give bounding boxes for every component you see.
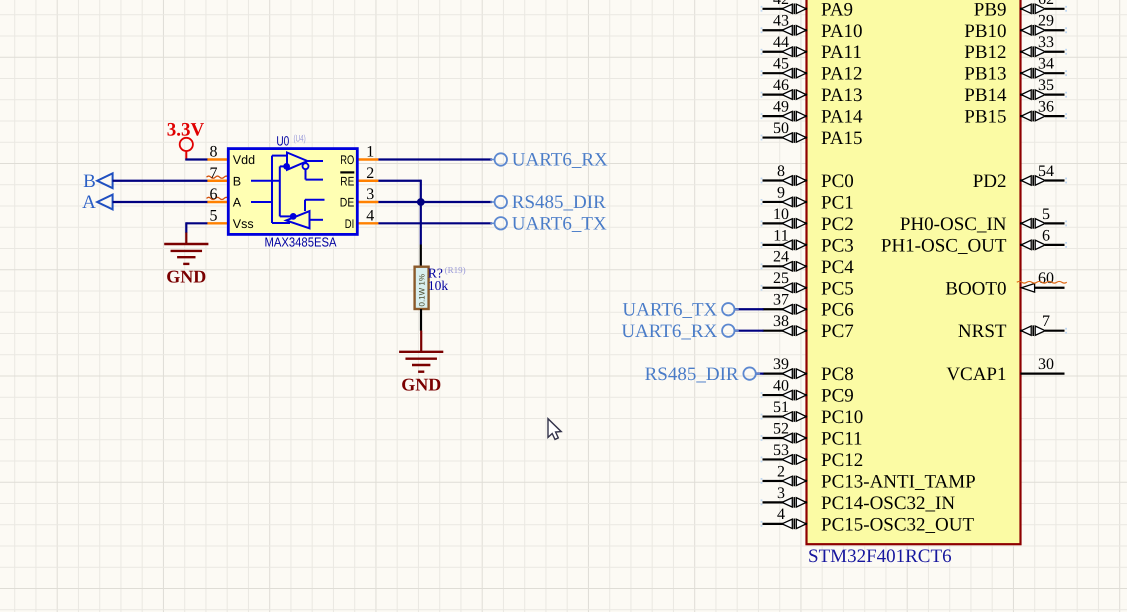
svg-text:25: 25 (773, 270, 789, 287)
svg-text:36: 36 (1038, 99, 1054, 116)
svg-text:53: 53 (773, 442, 789, 459)
svg-text:7: 7 (1042, 313, 1050, 330)
svg-text:37: 37 (773, 292, 789, 309)
svg-text:8: 8 (777, 163, 785, 180)
svg-text:PA11: PA11 (821, 42, 862, 63)
svg-text:Vdd: Vdd (233, 153, 255, 167)
svg-text:PC1: PC1 (821, 192, 854, 213)
svg-text:42: 42 (773, 0, 789, 8)
svg-text:PC11: PC11 (821, 429, 863, 450)
svg-text:8: 8 (210, 144, 218, 161)
svg-text:UART6_RX: UART6_RX (621, 321, 717, 342)
svg-text:39: 39 (773, 356, 789, 373)
svg-text:PA12: PA12 (821, 64, 863, 85)
svg-text:38: 38 (773, 313, 789, 330)
svg-text:54: 54 (1038, 163, 1054, 180)
svg-text:30: 30 (1038, 356, 1054, 373)
svg-text:PC4: PC4 (821, 257, 854, 278)
svg-text:60: 60 (1038, 270, 1054, 287)
svg-text:35: 35 (1038, 77, 1054, 94)
svg-text:3: 3 (777, 485, 785, 502)
svg-text:PC10: PC10 (821, 407, 863, 428)
svg-text:UART6_TX: UART6_TX (512, 214, 607, 235)
svg-text:PH0-OSC_IN: PH0-OSC_IN (900, 214, 1007, 235)
svg-text:PB14: PB14 (964, 85, 1007, 106)
svg-text:A: A (233, 196, 242, 210)
svg-text:U0: U0 (276, 133, 289, 148)
svg-text:NRST: NRST (958, 321, 1007, 342)
svg-text:UART6_RX: UART6_RX (512, 150, 608, 171)
svg-text:44: 44 (773, 34, 789, 51)
svg-text:(R19): (R19) (445, 265, 466, 275)
svg-text:PC7: PC7 (821, 321, 854, 342)
svg-text:6: 6 (1042, 227, 1050, 244)
svg-text:PC12: PC12 (821, 450, 863, 471)
svg-text:MAX3485ESA: MAX3485ESA (265, 234, 337, 249)
svg-text:RS485_DIR: RS485_DIR (645, 364, 739, 385)
svg-text:46: 46 (773, 77, 789, 94)
svg-text:RO: RO (340, 153, 354, 167)
svg-text:RS485_DIR: RS485_DIR (512, 192, 606, 213)
svg-text:Vss: Vss (233, 217, 254, 231)
svg-text:24: 24 (773, 249, 789, 266)
svg-text:A: A (82, 192, 96, 213)
svg-text:PC9: PC9 (821, 386, 854, 407)
svg-text:52: 52 (773, 420, 789, 437)
svg-text:11: 11 (773, 227, 788, 244)
svg-text:GND: GND (166, 267, 206, 287)
svg-text:3: 3 (366, 186, 374, 203)
svg-text:B: B (233, 174, 241, 188)
svg-text:34: 34 (1038, 56, 1054, 73)
svg-text:PC5: PC5 (821, 278, 854, 299)
svg-text:PC13-ANTI_TAMP: PC13-ANTI_TAMP (821, 471, 976, 492)
svg-text:33: 33 (1038, 34, 1054, 51)
svg-text:PC0: PC0 (821, 171, 854, 192)
svg-text:4: 4 (777, 506, 785, 523)
svg-text:RE: RE (340, 174, 354, 188)
svg-text:10: 10 (773, 206, 789, 223)
svg-text:DI: DI (345, 217, 355, 231)
svg-text:PA10: PA10 (821, 21, 863, 42)
svg-text:51: 51 (773, 399, 789, 416)
svg-text:29: 29 (1038, 13, 1054, 30)
svg-text:PC3: PC3 (821, 235, 854, 256)
svg-text:PC8: PC8 (821, 364, 854, 385)
svg-text:PB15: PB15 (964, 107, 1006, 128)
svg-text:PB9: PB9 (974, 0, 1007, 20)
svg-text:45: 45 (773, 56, 789, 73)
svg-text:10k: 10k (428, 278, 449, 293)
svg-text:PA13: PA13 (821, 85, 863, 106)
svg-text:7: 7 (210, 165, 218, 182)
svg-text:1: 1 (366, 144, 374, 161)
svg-text:2: 2 (366, 165, 374, 182)
svg-text:STM32F401RCT6: STM32F401RCT6 (808, 546, 952, 567)
svg-text:5: 5 (210, 207, 218, 224)
svg-text:PB10: PB10 (964, 21, 1006, 42)
svg-text:VCAP1: VCAP1 (946, 364, 1006, 385)
svg-text:40: 40 (773, 377, 789, 394)
svg-text:PA15: PA15 (821, 128, 863, 149)
svg-text:PC14-OSC32_IN: PC14-OSC32_IN (821, 493, 955, 514)
svg-text:9: 9 (777, 184, 785, 201)
svg-text:6: 6 (210, 186, 218, 203)
svg-text:PD2: PD2 (973, 171, 1007, 192)
svg-text:(U4): (U4) (294, 133, 306, 144)
svg-text:4: 4 (366, 207, 374, 224)
svg-text:PA14: PA14 (821, 107, 863, 128)
svg-text:BOOT0: BOOT0 (945, 278, 1006, 299)
svg-text:50: 50 (773, 120, 789, 137)
svg-text:B: B (83, 171, 96, 192)
svg-text:43: 43 (773, 13, 789, 30)
svg-text:49: 49 (773, 99, 789, 116)
svg-text:GND: GND (401, 374, 441, 394)
svg-text:PB12: PB12 (964, 42, 1006, 63)
svg-text:PC15-OSC32_OUT: PC15-OSC32_OUT (821, 514, 974, 535)
svg-text:0.1W 1%: 0.1W 1% (418, 274, 427, 306)
svg-text:5: 5 (1042, 206, 1050, 223)
svg-text:UART6_TX: UART6_TX (622, 299, 717, 320)
svg-text:PC2: PC2 (821, 214, 854, 235)
svg-text:DE: DE (340, 196, 355, 210)
svg-text:PC6: PC6 (821, 300, 854, 321)
svg-text:PH1-OSC_OUT: PH1-OSC_OUT (881, 235, 1007, 256)
svg-text:PA9: PA9 (821, 0, 853, 20)
svg-text:2: 2 (777, 463, 785, 480)
svg-text:PB13: PB13 (964, 64, 1006, 85)
